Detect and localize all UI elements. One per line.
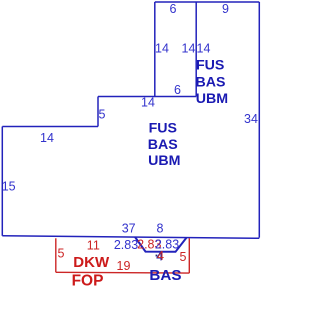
svg-text:UBM: UBM [148, 153, 180, 169]
svg-text:37: 37 [122, 222, 136, 236]
bay: trapezoid notch below bottom wall [135, 237, 187, 252]
svg-text:6: 6 [174, 83, 181, 97]
svg-text:34: 34 [244, 112, 258, 126]
red annex: left vertical [55, 238, 57, 272]
svg-text:14: 14 [182, 42, 196, 56]
svg-text:2.83: 2.83 [114, 238, 138, 252]
wall: left edge of building [1, 127, 3, 236]
wall: left step horizontal [2, 126, 98, 128]
wall: bottom edge of building [2, 236, 259, 239]
svg-text:BAS: BAS [149, 267, 181, 284]
wall: step vertical at x=98 [97, 97, 99, 127]
svg-text:19: 19 [117, 259, 131, 273]
svg-text:5: 5 [58, 246, 65, 260]
svg-text:FOP: FOP [72, 273, 104, 290]
red annex: right vertical [188, 238, 190, 273]
svg-text:FUS: FUS [149, 120, 177, 136]
wall: right edge of building [258, 2, 260, 238]
svg-text:14: 14 [155, 42, 169, 56]
svg-text:11: 11 [87, 238, 100, 252]
svg-text:DKW: DKW [73, 254, 110, 271]
svg-text:5: 5 [180, 250, 187, 264]
svg-text:14: 14 [40, 131, 54, 145]
wall: vertical at x=155 (left of top room) [154, 2, 156, 97]
small dark dot left of the 4 [156, 255, 158, 257]
svg-text:8: 8 [157, 222, 164, 236]
svg-text:6: 6 [170, 2, 177, 16]
svg-text:FUS: FUS [196, 58, 224, 74]
svg-text:14: 14 [197, 42, 211, 56]
svg-text:15: 15 [2, 179, 16, 193]
wall: horizontal at y=96.5 [98, 96, 196, 98]
svg-text:UBM: UBM [196, 91, 228, 107]
svg-text:4: 4 [157, 249, 164, 263]
svg-text:BAS: BAS [148, 137, 178, 153]
svg-text:5: 5 [99, 108, 106, 122]
svg-text:14: 14 [141, 96, 155, 110]
wall: top edge of building [155, 1, 259, 3]
svg-text:9: 9 [222, 2, 229, 16]
wall: partition vertical at x=196 [195, 2, 197, 97]
red annex: bottom horizontal [56, 271, 190, 274]
svg-text:BAS: BAS [196, 74, 226, 90]
